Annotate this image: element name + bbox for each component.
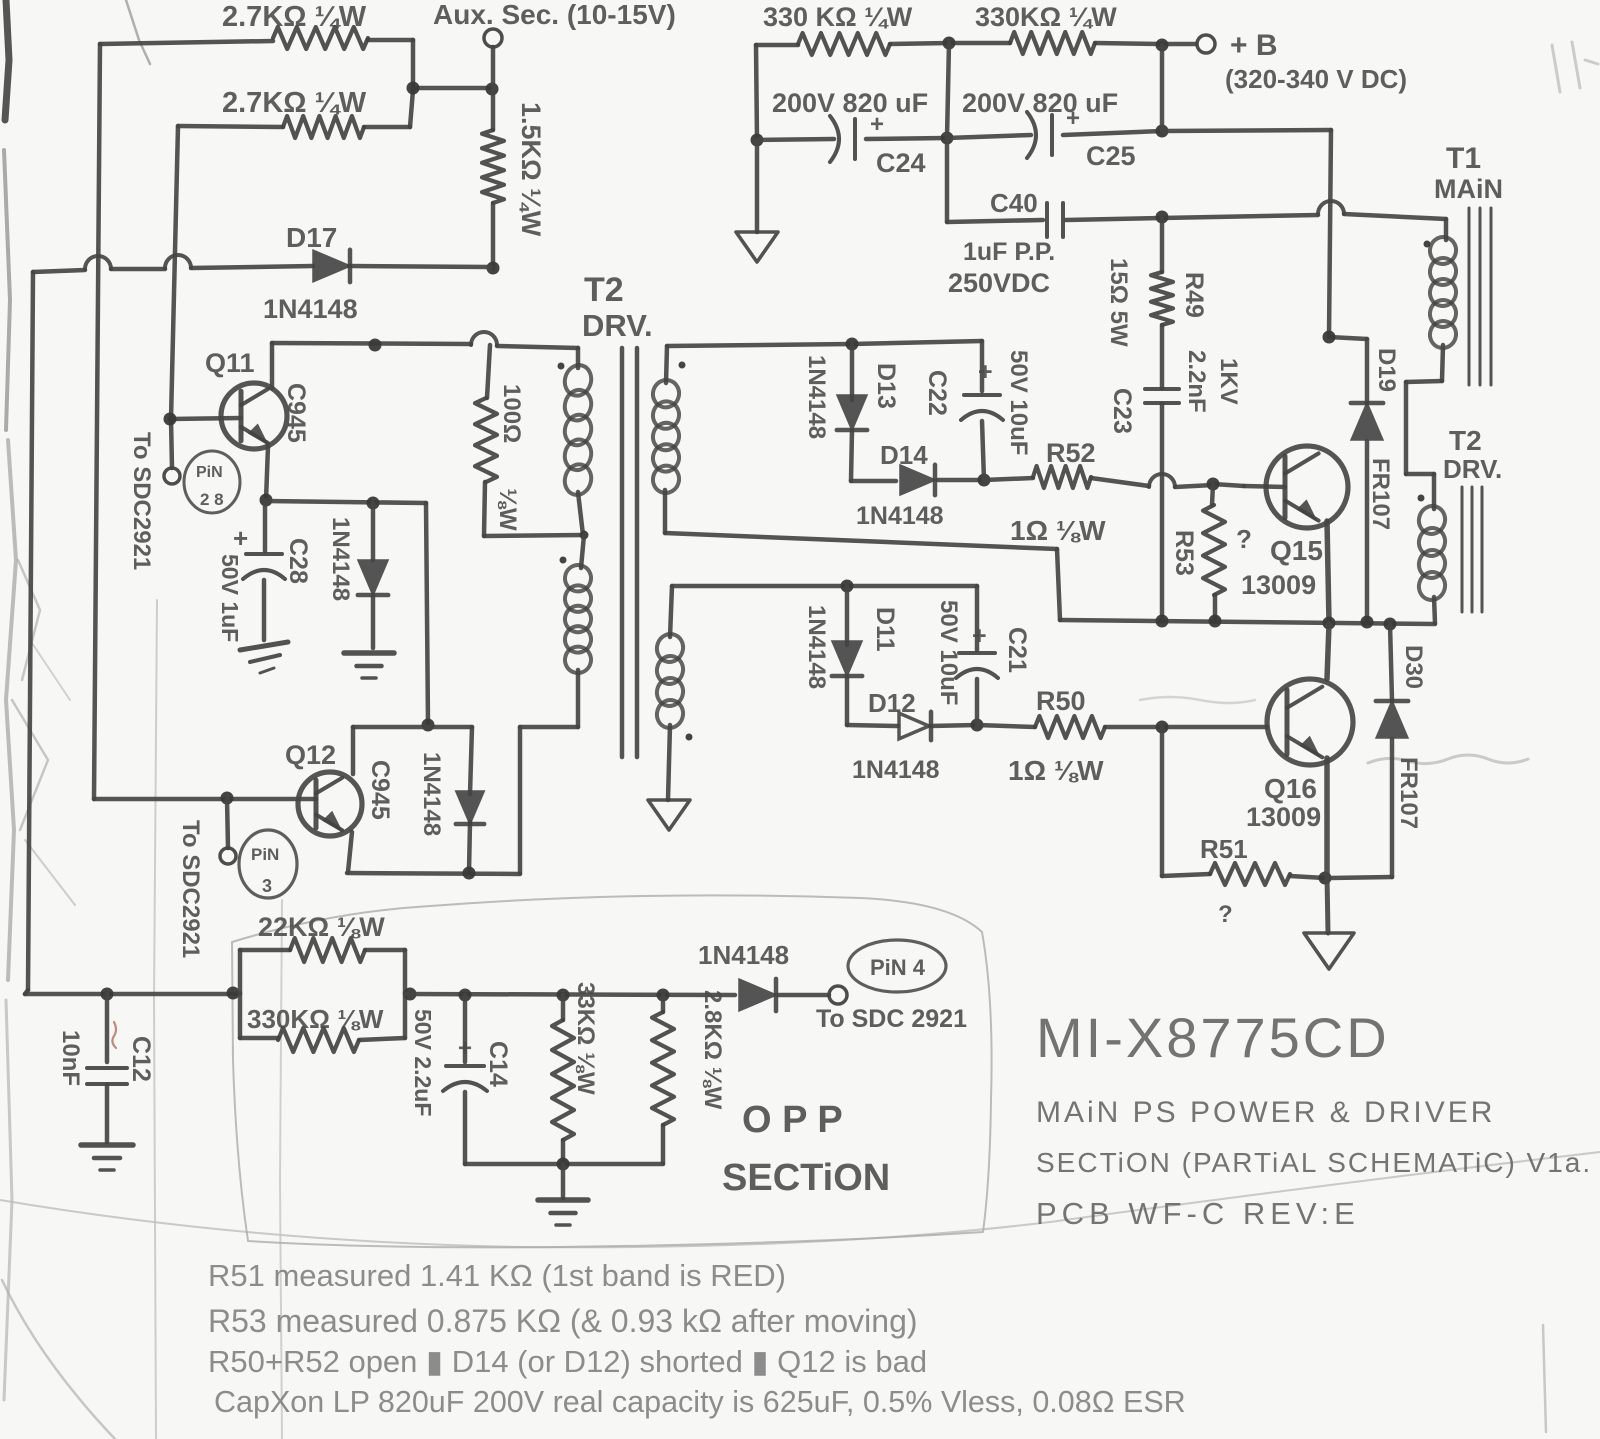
svg-text:33KΩ ⅛W: 33KΩ ⅛W [572,982,599,1095]
svg-text:FR107: FR107 [1395,757,1422,829]
title line4 [1036,1196,1360,1231]
diode D13 1N4148 [803,344,900,481]
svg-text:DRV.: DRV. [1443,454,1502,484]
svg-text:330KΩ ⅛W: 330KΩ ⅛W [247,1004,384,1034]
svg-text:R51 measured 1.41 KΩ (1st band: R51 measured 1.41 KΩ (1st band is RED) [208,1258,786,1293]
svg-text:R53 measured 0.875 KΩ (& 0.93: R53 measured 0.875 KΩ (& 0.93 kΩ after m… [208,1303,918,1339]
ground C28 [240,642,288,673]
wire rail C [171,126,178,468]
resistor 33K 1/8W [552,982,599,1163]
svg-text:Q16: Q16 [1264,773,1317,804]
svg-text:1N4148: 1N4148 [698,940,789,970]
svg-text:+: + [233,523,248,553]
svg-text:MI-X8775CD: MI-X8775CD [1036,1006,1390,1069]
lower loop top wire [672,580,977,593]
svg-text:+: + [458,1035,472,1062]
node C25 right [1156,125,1169,138]
node 2.8K top [657,989,670,1002]
resistor 2.7K #2 (2.7KΩ 1/4W) [222,87,367,138]
svg-text:+ B: + B [1230,29,1278,62]
diode 1N4148 Q12 clamp [418,752,484,836]
paper edge artifacts [2,0,150,1439]
wire collector row to T2 [272,332,578,368]
resistor 330K #1 (330KΩ 1/4W) [763,2,913,55]
svg-text:FR107: FR107 [1367,458,1394,530]
svg-text:D13: D13 [872,363,900,409]
transistor Q11 C945 [205,348,310,449]
resistor R51 loop [1162,727,1332,928]
wire emitter row Q15 [1060,615,1435,631]
label T2 DRV right [1443,425,1502,484]
svg-text:13009: 13009 [1241,570,1316,600]
wire rail A left [25,272,33,994]
note CapXon [214,1385,1186,1419]
svg-text:D30: D30 [1400,645,1427,689]
resistor R52 1R 1/8W [984,438,1213,546]
capacitor C24 200V 820uF [757,88,946,178]
diode D17 1N4148 [263,222,358,324]
svg-text:D17: D17 [286,222,337,253]
diode D12 1N4148 [852,688,940,784]
wire diode to pin4 [777,993,829,998]
svg-text:22KΩ ⅛W: 22KΩ ⅛W [258,912,385,942]
ground C24 [736,232,778,262]
title MI-X8775CD [1036,1006,1390,1069]
title line3 [1036,1147,1592,1178]
terminal pin4 [829,986,847,1004]
resistor 2.8K 1/8W [652,990,726,1163]
note R50R52 [208,1344,927,1379]
capacitor C25 200V 820uF [947,88,1162,171]
svg-text:D19: D19 [1373,348,1400,392]
winding T2 primary upper [558,362,595,498]
wire Q16 collector [1327,624,1329,679]
wire T2drv to emitter row [1434,597,1435,623]
svg-text:T2: T2 [1449,425,1482,456]
svg-text:MAiN: MAiN [1434,174,1503,204]
ground C12 [81,1145,133,1170]
label Aux. Sec. (10-15V) [433,0,676,30]
svg-text:SECTiON (PARTiAL SCHEMATiC) V1: SECTiON (PARTiAL SCHEMATiC) V1a. [1036,1147,1592,1178]
transformer T2drv core [1462,487,1482,612]
resistor 1.5K (1.5KΩ 1/4W) [482,102,546,237]
faint scribbles [1140,42,1598,1432]
svg-text:Q12: Q12 [285,740,336,770]
wire mid vertical [947,43,949,222]
capacitor C22 50V 10uF [923,341,1032,480]
label To SDC 2921 [816,1005,967,1033]
svg-text:250VDC: 250VDC [948,268,1050,298]
wire C24 left [751,45,764,232]
title line2 [1036,1096,1495,1129]
terminal pin2-8 [164,468,180,484]
capacitor C21 50V 10uF [935,586,1031,725]
wire Q11 collector [270,343,275,388]
wire +B vertical [1160,45,1165,131]
note R51 [208,1258,786,1293]
transformer T2 core [622,348,637,757]
ground OPP [538,1164,588,1225]
svg-text:To SDC 2921: To SDC 2921 [816,1005,967,1033]
capacitor C23 2.2nF 1KV [1108,350,1242,620]
label PiN 3 [239,830,297,898]
wire +B to Q15 [1162,130,1331,336]
wire D11 bottom row [847,719,984,732]
svg-text:PCB WF-C REV:E: PCB WF-C REV:E [1036,1196,1360,1231]
wire D13 bottom row [851,474,991,487]
diode D11 1N4148 [803,586,899,725]
svg-text:1N4148: 1N4148 [418,752,445,836]
svg-text:2.8KΩ ⅛W: 2.8KΩ ⅛W [699,990,726,1110]
svg-text:+: + [972,622,987,650]
svg-text:2.2nF: 2.2nF [1183,350,1210,413]
wire 2.7K#2 row [178,90,413,127]
svg-text:O P P: O P P [742,1099,843,1141]
label OPP [742,1099,843,1141]
resistor R49 15R 5W [1105,218,1208,388]
wire D17 net [33,255,491,272]
wire aux-sec top row [100,40,491,88]
note R53 [208,1303,918,1339]
label To SDC2921 (pin3) [177,820,204,958]
wire rail B [94,44,100,799]
node collector drop [422,719,435,732]
svg-text:1N4148: 1N4148 [263,294,358,324]
svg-text:C23: C23 [1108,388,1136,434]
node R49 top [1156,211,1169,224]
winding T1 primary [1424,234,1460,351]
svg-text:1Ω ⅛W: 1Ω ⅛W [1008,755,1104,786]
node C14 top [459,989,472,1002]
svg-text:R53: R53 [1170,530,1198,576]
svg-text:13009: 13009 [1246,802,1321,832]
wire T2 primary return [520,670,578,873]
resistor 330K #2 (330KΩ 1/4W) [975,2,1117,54]
svg-text:R51: R51 [1200,834,1248,864]
node box right [404,988,417,1001]
wire secondary B bottom [668,725,670,800]
node D13 top [846,338,859,351]
svg-text:R52: R52 [1046,438,1096,468]
terminal Aux Sec [484,29,502,47]
svg-text:200V 820 uF: 200V 820 uF [962,88,1118,118]
svg-text:⅛W: ⅛W [494,488,521,531]
wire Q12 base [94,792,316,805]
winding T2 primary lower [562,535,594,676]
label PiN 2-8 [184,451,240,513]
diode D30 FR107 [1330,624,1427,878]
svg-text:T1: T1 [1446,142,1481,175]
bus bottom [25,992,240,997]
wire aux vertical [491,47,496,130]
label SECTION [722,1157,890,1199]
resistor 330K 1/8W [240,993,405,1052]
svg-text:1N4148: 1N4148 [803,355,830,439]
svg-text:T2: T2 [584,271,624,309]
svg-text:C14: C14 [484,1041,512,1087]
node box left [227,987,240,1000]
svg-text:2.7KΩ ¼W: 2.7KΩ ¼W [222,1,367,33]
svg-text:50V 10uF: 50V 10uF [935,600,962,705]
svg-text:3: 3 [262,876,272,896]
resistor 22K 1/8W [240,912,405,993]
ground Q16 [1304,933,1354,969]
transformer T1 core [1469,208,1491,385]
OPP outline [232,895,992,1247]
winding T2 secondary A [650,346,686,496]
wire 1.5K to D17 node [487,203,500,275]
wire Q11 emitter [260,446,273,507]
label T2 DRV top [582,271,653,343]
svg-text:1uF P.P.: 1uF P.P. [963,238,1055,266]
svg-text:2 8: 2 8 [200,490,224,509]
svg-text:To SDC2921: To SDC2921 [128,432,155,570]
wire Q11 base [164,413,242,426]
svg-text:MAiN PS POWER & DRIVER: MAiN PS POWER & DRIVER [1036,1096,1495,1129]
diode D19 FR107 [1329,337,1400,620]
capacitor C40 1uF 250VDC [947,188,1162,298]
svg-text:C24: C24 [876,148,926,178]
svg-text:PiN: PiN [196,464,223,481]
svg-text:C25: C25 [1086,141,1136,171]
resistor 2.7K #1 (2.7KΩ 1/4W) [222,1,368,49]
svg-text:C945: C945 [366,760,394,820]
transistor Q15 13009 [1241,446,1348,600]
svg-text:15Ω 5W: 15Ω 5W [1105,258,1132,347]
node Q16 base [1156,721,1169,734]
label PiN 4 [848,940,946,992]
svg-text:C21: C21 [1003,627,1031,673]
svg-text:To SDC2921: To SDC2921 [177,820,204,958]
ground 1N4148 clamp [344,653,394,678]
node 33K top [557,989,570,1002]
svg-text:C40: C40 [990,188,1038,218]
svg-text:D14: D14 [880,440,928,470]
wire Q16 emitter [1327,758,1328,933]
svg-text:+: + [978,358,993,386]
resistor 100R 1/8W [475,345,583,536]
terminal pin3 [220,798,236,864]
capacitor C12 10nF [57,994,155,1142]
diode 1N4148 Q11 clamp [327,503,388,648]
node C12 [101,988,114,1001]
svg-text:C28: C28 [284,538,312,584]
wire emitter row [266,497,428,725]
winding T2 drv sense [1416,495,1449,604]
svg-text:1Ω ⅛W: 1Ω ⅛W [1010,515,1106,546]
wire Q15 emitter [1327,521,1329,622]
svg-text:1N4148: 1N4148 [803,605,830,689]
diode 1N4148 out [698,940,789,1011]
svg-text:50V 1uF: 50V 1uF [217,554,243,642]
wire Q12 bottom [347,867,520,880]
svg-text:PiN 4: PiN 4 [870,955,926,980]
svg-text:330 KΩ ¼W: 330 KΩ ¼W [763,2,913,32]
wire OPP bottom [465,1158,663,1171]
svg-text:D11: D11 [871,607,899,652]
capacitor C14 50V 2.2uF [410,995,512,1164]
svg-text:1N4148: 1N4148 [852,756,940,784]
svg-text:1N4148: 1N4148 [327,517,354,601]
capacitor C28 50V 1uF [217,500,312,642]
svg-text:C12: C12 [127,1036,155,1082]
winding T2 secondary B [654,586,693,741]
wire 330K row [756,43,1196,45]
label To SDC2921 (pin2-8) [128,432,155,570]
wire Q15 base [1207,478,1286,491]
svg-text:C22: C22 [923,370,951,416]
svg-text:1KV: 1KV [1215,358,1242,405]
svg-text:10nF: 10nF [57,1030,84,1086]
node T2 center tap [560,492,589,564]
svg-text:1N4148: 1N4148 [856,502,944,530]
resistor R53 [1170,484,1252,620]
wire C40 row to T1 [1162,201,1446,240]
svg-text:?: ? [1236,524,1252,554]
diode D14 1N4148 [856,440,944,530]
wire T1 to T2drv jog [1406,345,1443,509]
node collector row [369,339,382,352]
wire secondary A return [665,490,1060,620]
transistor Q12 C945 [285,740,394,836]
svg-text:D12: D12 [868,688,916,718]
wire Q12 emitter [348,832,352,872]
svg-text:200V 820 uF: 200V 820 uF [772,88,928,118]
svg-text:SECTiON: SECTiON [722,1157,890,1199]
svg-text:Q15: Q15 [1270,535,1323,566]
svg-text:R50: R50 [1036,686,1086,716]
label T1 MAIN [1434,142,1503,204]
transistor Q16 13009 [1246,679,1353,832]
node C24-C25 junction [941,132,954,145]
node Q15 collector [1323,331,1336,344]
svg-text:R50+R52 open ▮ D14 (or D12) sh: R50+R52 open ▮ D14 (or D12) shorted ▮ Q1… [208,1344,927,1379]
resistor R50 1R 1/8W [977,686,1267,786]
svg-text:CapXon LP 820uF 200V real capa: CapXon LP 820uF 200V real capacity is 62… [214,1385,1186,1419]
svg-text:DRV.: DRV. [582,308,653,343]
svg-text:Aux. Sec. (10-15V): Aux. Sec. (10-15V) [433,0,676,30]
svg-text:330KΩ ¼W: 330KΩ ¼W [975,2,1117,32]
wire secondary A top [667,341,982,346]
svg-text:1.5KΩ ¼W: 1.5KΩ ¼W [516,102,546,237]
svg-text:R49: R49 [1180,272,1208,318]
svg-text:50V 2.2uF: 50V 2.2uF [410,1009,436,1116]
svg-text:(320-340 V DC): (320-340 V DC) [1225,64,1407,94]
terminal +B [1197,29,1407,94]
svg-text:PiN: PiN [251,845,279,864]
wire bus 2 [405,994,735,995]
svg-text:C945: C945 [282,383,310,443]
svg-text:?: ? [1218,901,1233,928]
node 330K junction [943,37,1169,52]
node 2.7K join [407,82,499,96]
svg-text:2.7KΩ ¼W: 2.7KΩ ¼W [222,87,367,119]
svg-text:100Ω: 100Ω [498,384,525,443]
svg-text:Q11: Q11 [205,348,255,378]
svg-text:50V 10uF: 50V 10uF [1005,350,1032,455]
wire Q12 collector loop [353,727,472,872]
ground T2 secondary B [648,800,690,830]
